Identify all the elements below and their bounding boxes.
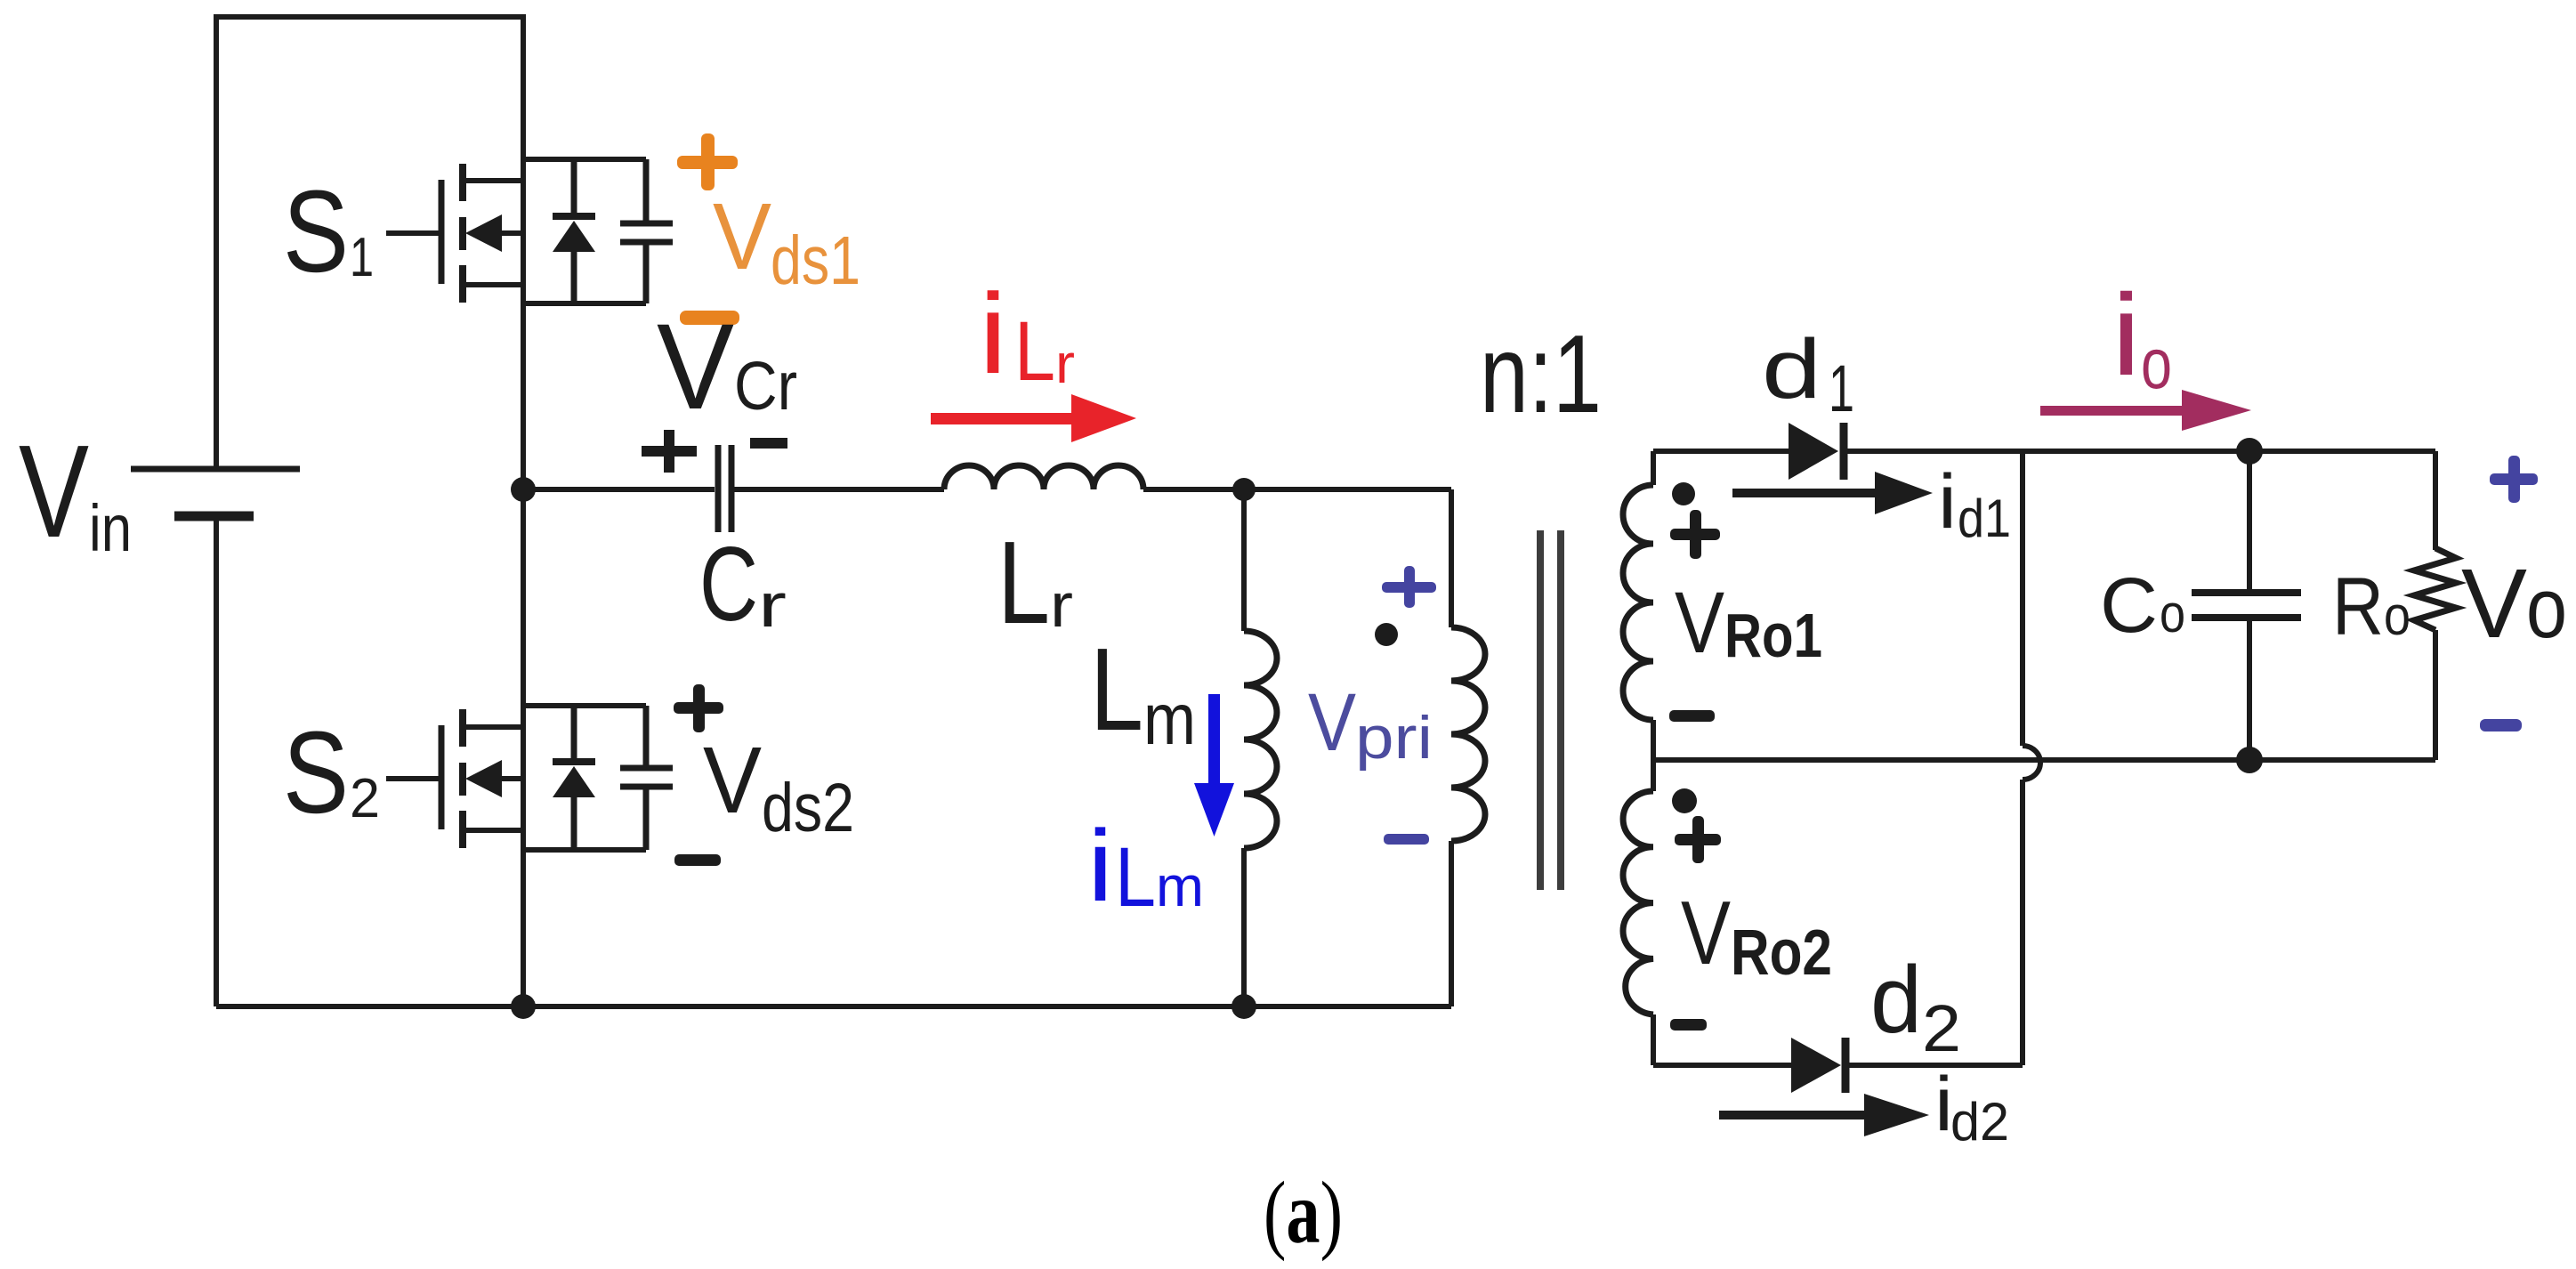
wire half-bridge vertical [521, 14, 526, 1006]
label Lr [997, 517, 1073, 648]
wire center tap rail [1653, 757, 2435, 763]
resistor Ro zigzag [2414, 548, 2456, 630]
label Vo (blue-black) [2461, 549, 2567, 659]
node A: Lr/Lm/primary junction [1232, 478, 1256, 501]
MOSFET S1 source link [463, 282, 523, 287]
transformer primary winding bottom leg [1449, 841, 1454, 1006]
secondary winding 2 coil [1623, 791, 1653, 1014]
svg-text:S: S [283, 166, 349, 296]
MOSFET S1 gate bar [439, 180, 445, 284]
body diode of S1 [553, 159, 595, 303]
current arrow id2 [1719, 1094, 1929, 1136]
polarity - of Vo (blue) [2480, 719, 2522, 731]
svg-text:m: m [1156, 854, 1204, 918]
label Ro [2332, 562, 2410, 652]
wire bottom rail [216, 1004, 1451, 1009]
secondary winding 1 top lead [1651, 451, 1656, 485]
svg-text:2: 2 [350, 768, 380, 829]
MOSFET S2 body arrow [465, 760, 523, 797]
MOSFET S1 frame top [523, 157, 646, 162]
svg-text:1: 1 [350, 227, 374, 288]
MOSFET S2 frame top [523, 703, 646, 708]
diode d2 [1791, 1038, 1845, 1093]
wire secondary 1 to diode d1 [1653, 449, 1789, 454]
capacitor Co top lead [2247, 451, 2252, 590]
svg-text:V: V [2461, 549, 2527, 659]
MOSFET S2 gate lead [386, 776, 439, 781]
svg-text:V: V [1675, 574, 1724, 671]
resistor Ro bottom lead [2433, 630, 2438, 760]
node: bottom rail junction under S2 [511, 994, 536, 1019]
MOSFET S2 frame bottom [523, 847, 646, 853]
node: output top junction [2236, 438, 2263, 465]
wire hop crossover [2023, 746, 2040, 780]
svg-text:o: o [2526, 561, 2567, 656]
label VRo1 [1675, 574, 1822, 671]
svg-text:m: m [1143, 679, 1196, 760]
svg-text:V: V [19, 418, 89, 565]
phase dot secondary 1 [1672, 482, 1695, 505]
svg-text:r: r [1050, 570, 1073, 640]
polarity - of VRo1 [1669, 710, 1715, 722]
svg-text:i: i [1938, 459, 1957, 545]
node: switch midpoint junction [511, 477, 536, 502]
MOSFET S1 frame bottom [523, 301, 646, 306]
polarity - of Vds1 (orange) [680, 311, 739, 325]
diode d1 [1789, 423, 1844, 480]
phase dot primary [1375, 623, 1398, 646]
MOSFET S1 body arrow [465, 214, 523, 252]
resistor Ro top lead [2433, 451, 2438, 550]
body diode of S2 [553, 706, 595, 850]
svg-text:V: V [1308, 677, 1356, 768]
polarity + of VRo1 [1670, 510, 1720, 559]
svg-text:o: o [2141, 324, 2172, 404]
capacitor Co plates [2192, 593, 2301, 618]
svg-text:Ro1: Ro1 [1724, 601, 1822, 670]
label Vin [19, 418, 132, 565]
MOSFET S1 channel segments [459, 164, 466, 303]
battery Vin short plate [174, 512, 254, 521]
svg-text:r: r [758, 570, 787, 640]
svg-text:L: L [1090, 624, 1143, 755]
parallel capacitor of S2 [620, 706, 673, 850]
label iLr (red) [979, 271, 1075, 399]
svg-text:i: i [979, 271, 1007, 398]
capacitor Cr plates [718, 445, 731, 532]
MOSFET S1 drain link [463, 178, 523, 183]
svg-text:V: V [657, 299, 734, 435]
svg-text:L: L [1014, 304, 1055, 399]
label io (magenta) [2112, 270, 2172, 404]
svg-text:pri: pri [1355, 704, 1433, 772]
wire Lr to node A [1143, 487, 1244, 492]
current arrow io (magenta) [2040, 390, 2251, 431]
svg-text:L: L [1115, 830, 1156, 925]
wire node A to primary [1244, 487, 1451, 492]
wire midpoint to Cr [523, 487, 715, 492]
inductor Lm [1244, 631, 1277, 848]
wire Cr to Lr [731, 487, 944, 492]
transformer primary winding right leg [1449, 489, 1454, 627]
svg-text:o: o [2160, 584, 2185, 643]
current arrow id1 [1732, 472, 1933, 514]
secondary winding 1 coil [1623, 485, 1653, 720]
MOSFET S2 gate bar [439, 725, 445, 829]
wire secondary 2 to diode d2 [1653, 1063, 1791, 1068]
label d1 [1762, 322, 1854, 425]
wire top rail [216, 14, 523, 20]
svg-text:S: S [283, 707, 349, 837]
label S2 [283, 707, 380, 837]
svg-text:i: i [2112, 270, 2141, 400]
transformer primary winding coil [1451, 627, 1485, 841]
label Vpri (blue) [1308, 677, 1433, 772]
secondary winding 1 bottom lead [1651, 720, 1656, 760]
polarity + of Vds2 [674, 684, 723, 732]
MOSFET S2 channel segments [459, 709, 466, 848]
svg-text:2: 2 [1922, 991, 1961, 1065]
wire Lm to bottom rail [1241, 848, 1247, 1006]
svg-text:L: L [997, 517, 1050, 648]
battery Vin long plate [131, 466, 300, 473]
svg-text:(a): (a) [1264, 1163, 1343, 1262]
svg-text:d: d [1870, 946, 1922, 1053]
svg-text:in: in [89, 491, 132, 565]
svg-text:d2: d2 [1950, 1092, 2009, 1152]
svg-text:ds1: ds1 [771, 222, 860, 299]
label Vds2 [703, 728, 854, 846]
polarity - of Vpri (blue) [1384, 834, 1429, 845]
label VRo2 [1681, 884, 1832, 989]
svg-text:Ro2: Ro2 [1731, 917, 1832, 989]
phase dot secondary 2 [1672, 788, 1697, 813]
label d2 [1870, 946, 1961, 1065]
label Co [2100, 562, 2185, 649]
label VCr [657, 299, 797, 435]
wire rectifier vertical lower [2020, 780, 2025, 1065]
svg-text:i: i [1087, 810, 1113, 923]
wire rectifier vertical upper [2020, 451, 2025, 746]
svg-text:d1: d1 [1958, 489, 2011, 548]
svg-text:o: o [2384, 586, 2410, 647]
svg-text:Cr: Cr [734, 348, 797, 424]
polarity - of VCr [750, 438, 787, 449]
polarity + of Vo (blue) [2490, 456, 2538, 503]
svg-text:d: d [1762, 322, 1821, 416]
wire node A down to Lm [1241, 489, 1247, 631]
transformer core [1540, 530, 1561, 890]
svg-text:C: C [699, 525, 758, 643]
svg-text:V: V [703, 728, 762, 833]
node: Lm bottom junction [1231, 994, 1256, 1019]
svg-text:1: 1 [1829, 352, 1854, 425]
label id2 [1934, 1062, 2009, 1152]
svg-text:r: r [1055, 334, 1075, 395]
parallel capacitor of S1 [620, 159, 673, 303]
MOSFET S2 drain link [463, 724, 523, 730]
polarity - of Vds2 [674, 854, 721, 866]
node: output bottom junction [2236, 747, 2263, 773]
capacitor Co bottom lead [2247, 620, 2252, 760]
label Vds1 (orange) [713, 184, 860, 299]
current arrow iLm (blue) [1194, 694, 1234, 837]
wire left rail lower segment [214, 516, 219, 1006]
wire d2 to rectifier vertical [1845, 1063, 2023, 1068]
svg-text:C: C [2100, 562, 2158, 649]
secondary winding 2 top lead [1651, 760, 1656, 791]
polarity - of VRo2 [1670, 1019, 1707, 1031]
svg-text:V: V [713, 184, 771, 289]
MOSFET S1 gate lead [386, 230, 439, 236]
polarity + of VCr [642, 430, 697, 473]
polarity + of Vpri (blue) [1382, 566, 1436, 608]
secondary winding 2 bottom lead [1651, 1014, 1656, 1065]
svg-text:V: V [1681, 884, 1731, 983]
inductor Lr [944, 465, 1143, 489]
polarity + of VRo2 [1675, 816, 1721, 863]
label id1 [1938, 459, 2011, 548]
current arrow iLr (red) [931, 394, 1136, 442]
label S1 [283, 166, 374, 296]
label iLm (blue) [1087, 810, 1204, 925]
wire left rail upper segment [214, 14, 219, 469]
svg-text:n:1: n:1 [1480, 313, 1602, 436]
label Cr [699, 525, 787, 643]
svg-text:R: R [2332, 562, 2384, 652]
label Lm [1090, 624, 1196, 760]
polarity + of Vds1 (orange) [677, 133, 738, 190]
MOSFET S2 source link [463, 828, 523, 833]
wire d1 to output rail [1844, 449, 2435, 454]
svg-text:ds2: ds2 [762, 770, 854, 846]
